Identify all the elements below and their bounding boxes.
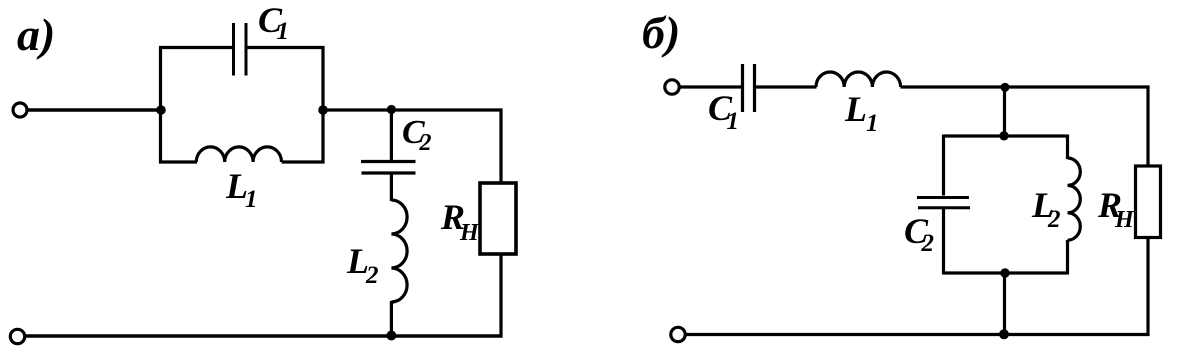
value label RH (circuit b) bbox=[1097, 185, 1135, 233]
capacitor C1 (circuit a) bbox=[234, 23, 247, 76]
wire node B3 down to bottom rail (circuit b) bbox=[1003, 273, 1006, 335]
wire input to C1 (circuit b) bbox=[680, 85, 741, 88]
svg-text:а): а) bbox=[17, 9, 55, 60]
wire bottom rail (circuit b) bbox=[686, 333, 1150, 336]
wire L1 to RH corner (circuit b) bbox=[901, 85, 1150, 88]
wire L2 to bottom (circuit a) bbox=[390, 301, 393, 336]
value label C1 (circuit a) bbox=[258, 0, 289, 45]
value label L2 (circuit a) bbox=[346, 241, 379, 289]
svg-text:L: L bbox=[844, 89, 867, 129]
wire box left upper (circuit b) bbox=[942, 135, 945, 196]
svg-text:2: 2 bbox=[365, 262, 379, 289]
wire box bottom (circuit b) bbox=[944, 271, 1068, 274]
svg-text:1: 1 bbox=[245, 186, 258, 213]
wire right vertical of parallel box a bbox=[321, 46, 324, 164]
resistor RH (circuit b) bbox=[1136, 166, 1161, 238]
terminal (input bottom, circuit a) bbox=[10, 329, 24, 343]
wire box top (circuit b) bbox=[944, 134, 1068, 137]
wire C1 to L1 (circuit b) bbox=[756, 85, 817, 88]
wire top branch left segment a bbox=[159, 46, 232, 49]
svg-text:1: 1 bbox=[866, 110, 879, 137]
wire RH branch top (circuit a) bbox=[499, 109, 502, 185]
node A3 bbox=[387, 105, 396, 114]
node B1 bbox=[1001, 83, 1010, 92]
wire bottom rail (circuit a) bbox=[25, 334, 503, 337]
terminal (input bottom, circuit b) bbox=[671, 327, 685, 341]
inductor L1 (circuit b) bbox=[816, 72, 901, 87]
wire input to node A1 bbox=[28, 108, 161, 111]
terminal (input top, circuit b) bbox=[665, 80, 679, 94]
capacitor C1 (circuit b) bbox=[743, 64, 755, 112]
resistor RH (circuit a) bbox=[480, 183, 516, 254]
wire C2 to L2 (circuit a) bbox=[390, 175, 393, 202]
wire box left lower (circuit b) bbox=[942, 209, 945, 275]
node B3 bbox=[1000, 268, 1009, 277]
svg-text:2: 2 bbox=[1047, 206, 1061, 233]
inductor L1 (circuit a) bbox=[196, 147, 281, 162]
wire top branch right segment a bbox=[248, 46, 325, 49]
wire node A3 down to C2 bbox=[390, 110, 393, 160]
wire left vertical of parallel box a bbox=[159, 46, 162, 164]
svg-text:б): б) bbox=[642, 7, 680, 58]
inductor L2 (circuit a) bbox=[391, 200, 407, 302]
node A1 bbox=[156, 105, 166, 115]
wire box right lower (circuit b) bbox=[1066, 240, 1069, 275]
wire box right upper (circuit b) bbox=[1066, 135, 1069, 160]
capacitor C2 (circuit b) bbox=[917, 198, 970, 208]
capacitor C2 (circuit a) bbox=[361, 162, 416, 174]
wire RH branch top (circuit b) bbox=[1146, 86, 1149, 168]
value label RH (circuit a) bbox=[440, 197, 480, 246]
value label C2 (circuit a) bbox=[402, 114, 432, 156]
node B4 bbox=[999, 329, 1009, 339]
wire node B1 down to box (circuit b) bbox=[1003, 87, 1006, 136]
svg-text:1: 1 bbox=[277, 18, 290, 45]
terminal (input top, circuit a) bbox=[13, 103, 27, 117]
svg-text:H: H bbox=[459, 220, 480, 246]
svg-text:1: 1 bbox=[727, 108, 740, 135]
svg-text:H: H bbox=[1114, 207, 1135, 233]
svg-text:2: 2 bbox=[419, 130, 432, 156]
value label C1 (circuit b) bbox=[708, 88, 739, 135]
wire node A2 to RH corner bbox=[323, 108, 503, 111]
wire bottom branch left segment a bbox=[159, 160, 197, 163]
node A4 bbox=[386, 331, 396, 341]
value label L1 (circuit a) bbox=[225, 166, 258, 213]
node B2 bbox=[999, 131, 1008, 140]
node A2 bbox=[318, 105, 328, 115]
value label L1 (circuit b) bbox=[844, 89, 879, 137]
wire bottom branch right segment a bbox=[282, 160, 325, 163]
inductor L2 (circuit b) bbox=[1068, 158, 1081, 240]
value label L2 (circuit b) bbox=[1031, 185, 1061, 233]
svg-text:2: 2 bbox=[921, 230, 935, 257]
wire RH branch bottom (circuit a) bbox=[499, 254, 502, 338]
value label C2 (circuit b) bbox=[904, 211, 934, 257]
wire RH branch bottom (circuit b) bbox=[1146, 238, 1149, 337]
